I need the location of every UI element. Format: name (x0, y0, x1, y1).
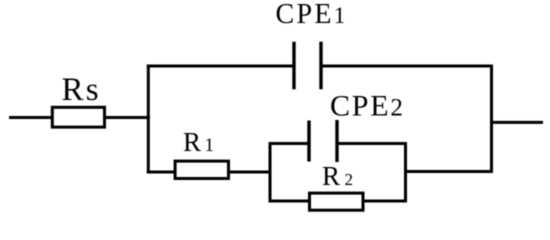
wire: inner box top left segment (269, 142, 310, 145)
svg-text:CPE2: CPE2 (330, 89, 405, 122)
svg-text:R1: R1 (183, 127, 218, 157)
capacitor CPE1 (294, 42, 321, 90)
node: inner box right vertical (404, 142, 407, 203)
wire: left input terminal (9, 116, 52, 119)
node: inner box left vertical (269, 142, 272, 203)
resistor Rs (52, 107, 104, 127)
wire: Rs to left junction (104, 116, 150, 119)
wire: inner box top right segment (337, 142, 407, 145)
resistor R1 (175, 161, 228, 178)
wire: inner box to right junction (404, 170, 493, 173)
svg-text:R2: R2 (322, 161, 358, 191)
resistor R2 (310, 193, 364, 210)
node: right junction vertical (490, 65, 493, 174)
svg-text:CPE1: CPE1 (276, 0, 348, 30)
svg-text:Rs: Rs (62, 72, 101, 108)
wire: top branch right segment (321, 65, 493, 68)
wire: inner box bottom left segment (269, 200, 311, 203)
wire: right output terminal (490, 121, 543, 124)
wire: R1 to inner parallel box (228, 171, 272, 174)
node: left junction vertical (147, 65, 150, 174)
capacitor CPE2 (309, 120, 337, 162)
wire: inner box bottom right segment (363, 200, 407, 203)
wire: lower branch from junction to R1 (147, 171, 176, 174)
wire: top branch left segment (147, 65, 294, 68)
